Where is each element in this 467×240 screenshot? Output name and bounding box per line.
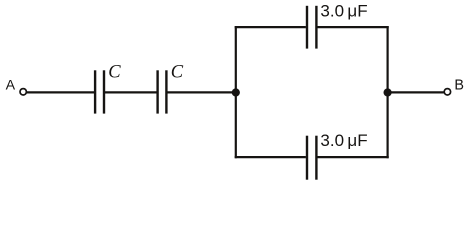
wire right branch vertical: [387, 26, 389, 158]
capacitor C1: [95, 70, 104, 113]
wire A to C1: [27, 91, 94, 93]
capacitor C4 (3.0 uF bottom): [307, 136, 316, 180]
wire top branch left: [235, 26, 306, 28]
wire node 2 to B: [388, 91, 444, 93]
capacitor C3 (3.0 uF top): [307, 6, 316, 49]
svg-text:C: C: [108, 63, 121, 83]
terminal B: [444, 89, 450, 95]
svg-text:A: A: [6, 78, 16, 94]
terminal A: [20, 89, 26, 95]
svg-text:3.0 μF: 3.0 μF: [320, 1, 367, 20]
node 2 junction: [384, 88, 392, 96]
node 1 junction: [232, 88, 240, 96]
svg-text:B: B: [454, 78, 464, 94]
wire C2 to node 1: [167, 91, 236, 93]
wire bottom branch left: [235, 156, 306, 158]
capacitor C2: [158, 70, 167, 113]
wire bottom branch right: [318, 156, 389, 158]
svg-text:C: C: [171, 63, 184, 83]
svg-text:3.0 μF: 3.0 μF: [320, 131, 367, 150]
wire top branch right: [318, 26, 389, 28]
wire left branch vertical: [235, 26, 237, 158]
wire C1 to C2: [105, 91, 157, 93]
